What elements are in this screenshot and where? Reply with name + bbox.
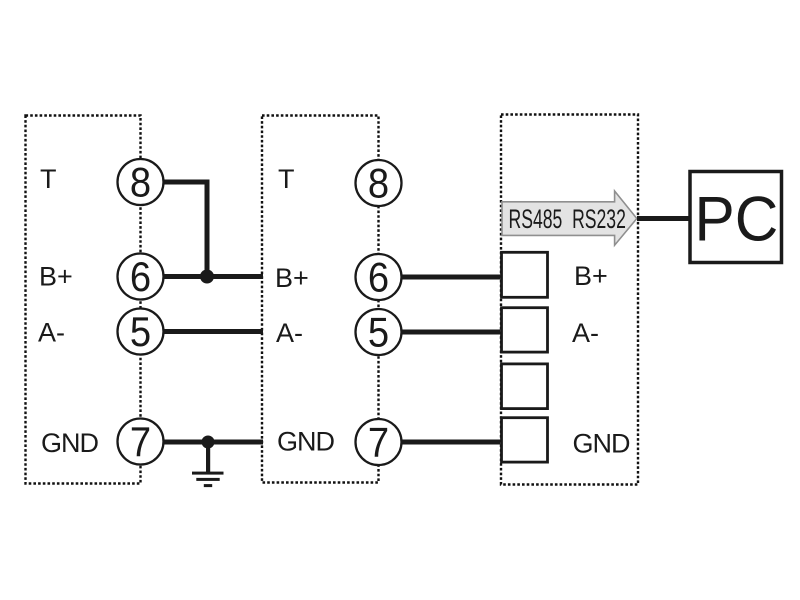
- pin 8 module 2: [356, 160, 402, 207]
- label GND (converter): [573, 429, 631, 459]
- svg-text:RS485 RS232: RS485 RS232: [509, 203, 626, 234]
- wire arrow tip to PC: [637, 216, 689, 221]
- pin 5 module 1: [118, 309, 164, 356]
- svg-text:A-: A-: [276, 318, 303, 348]
- PC box: [690, 172, 782, 263]
- pin 6 module 1: [118, 254, 164, 301]
- label B+ (module 1): [39, 262, 73, 292]
- svg-text:7: 7: [130, 420, 151, 466]
- converter terminal GND: [502, 418, 548, 462]
- svg-text:8: 8: [368, 161, 389, 207]
- label B+ (converter): [574, 261, 608, 291]
- svg-text:8: 8: [130, 160, 151, 206]
- label A- (module 2): [276, 318, 303, 348]
- junction GND: [202, 436, 215, 449]
- ground symbol: [192, 442, 224, 487]
- svg-text:B+: B+: [574, 261, 608, 291]
- svg-text:T: T: [278, 164, 295, 194]
- module 1 dashed box: [26, 116, 141, 484]
- converter terminal A-: [502, 308, 548, 352]
- module 2 dashed box: [262, 116, 379, 483]
- label T (module 1): [40, 164, 57, 194]
- svg-text:5: 5: [368, 310, 389, 356]
- wire pin 7 module 1 to module 2 GND: [162, 440, 263, 445]
- label A- (module 1): [38, 318, 65, 348]
- wire from pin 8 module 1 to B+ bus: [162, 182, 207, 277]
- converter terminal unused: [502, 364, 548, 409]
- svg-text:6: 6: [130, 255, 151, 301]
- wire pin 5 module 1 to module 2 A-: [162, 329, 263, 334]
- svg-text:5: 5: [130, 310, 151, 356]
- svg-text:7: 7: [368, 420, 389, 466]
- pin 7 module 1: [118, 419, 164, 466]
- wire pin 6 module 1 to module 2 B+: [162, 274, 263, 279]
- svg-text:T: T: [40, 164, 57, 194]
- svg-text:A-: A-: [38, 318, 65, 348]
- converter terminal B+: [502, 252, 548, 297]
- pin 8 module 1: [118, 159, 164, 206]
- svg-text:GND: GND: [573, 429, 631, 459]
- svg-text:B+: B+: [39, 262, 73, 292]
- pin 5 module 2: [356, 309, 402, 356]
- RS485 to RS232 arrow: [502, 191, 637, 245]
- wire pin 6 module 2 to converter B+ terminal: [400, 275, 500, 280]
- svg-text:B+: B+: [275, 263, 309, 293]
- label GND (module 1): [41, 428, 99, 458]
- pin 7 module 2: [356, 419, 402, 466]
- label GND (module 2): [277, 427, 335, 457]
- pin 6 module 2: [356, 254, 402, 301]
- label B+ (module 2): [275, 263, 309, 293]
- svg-text:6: 6: [368, 255, 389, 301]
- label T (module 2): [278, 164, 295, 194]
- label A- (converter): [572, 318, 599, 348]
- wire pin 5 module 2 to converter A- terminal: [400, 330, 500, 335]
- junction B+ bus: [200, 270, 214, 284]
- converter dashed box: [501, 115, 638, 485]
- svg-text:GND: GND: [277, 427, 335, 457]
- svg-text:A-: A-: [572, 318, 599, 348]
- wire pin 7 module 2 to converter GND terminal: [400, 440, 500, 445]
- svg-text:GND: GND: [41, 428, 99, 458]
- svg-text:PC: PC: [695, 184, 779, 255]
